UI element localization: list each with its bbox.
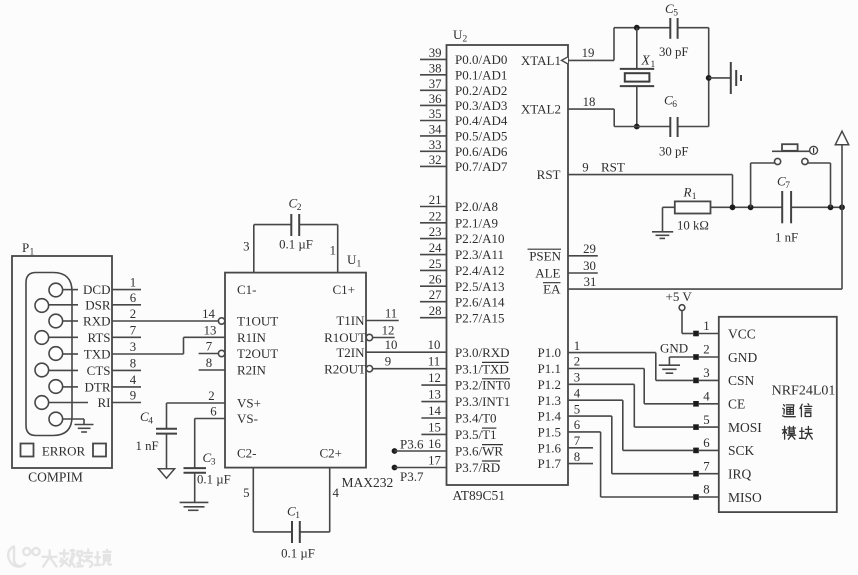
- svg-text:U: U: [347, 252, 357, 267]
- svg-text:P0.5/AD5: P0.5/AD5: [455, 129, 507, 144]
- svg-text:GND: GND: [728, 350, 757, 365]
- svg-text:P1.1: P1.1: [538, 361, 561, 376]
- svg-text:38: 38: [429, 61, 442, 75]
- svg-text:MAX232: MAX232: [342, 475, 394, 490]
- svg-text:7: 7: [785, 181, 790, 191]
- svg-text:P3.6/WR: P3.6/WR: [455, 444, 503, 459]
- svg-text:R2OUT: R2OUT: [324, 361, 366, 376]
- svg-text:P2.3/A11: P2.3/A11: [455, 247, 504, 262]
- svg-text:4: 4: [130, 373, 137, 387]
- svg-text:C2+: C2+: [320, 446, 343, 461]
- svg-text:2: 2: [297, 203, 302, 213]
- svg-text:4: 4: [703, 390, 710, 404]
- svg-text:4: 4: [148, 417, 153, 427]
- svg-text:P0.4/AD4: P0.4/AD4: [455, 113, 508, 128]
- svg-text:MOSI: MOSI: [728, 420, 762, 435]
- svg-text:29: 29: [583, 242, 596, 256]
- svg-text:8: 8: [703, 483, 709, 497]
- svg-text:34: 34: [429, 122, 442, 136]
- svg-text:1: 1: [574, 339, 580, 353]
- svg-text:6: 6: [210, 405, 217, 419]
- svg-text:VCC: VCC: [728, 326, 756, 341]
- svg-text:23: 23: [429, 225, 442, 239]
- svg-text:4: 4: [333, 486, 340, 500]
- svg-text:28: 28: [429, 304, 442, 318]
- svg-text:22: 22: [429, 209, 442, 223]
- svg-text:1: 1: [295, 511, 300, 521]
- svg-text:P2.5/A13: P2.5/A13: [455, 279, 504, 294]
- svg-text:1: 1: [703, 319, 709, 333]
- svg-text:4: 4: [574, 386, 581, 400]
- svg-text:1 nF: 1 nF: [136, 439, 159, 453]
- svg-text:24: 24: [429, 241, 442, 255]
- svg-text:P3.2/INT0: P3.2/INT0: [455, 378, 510, 393]
- svg-text:VS-: VS-: [237, 411, 258, 426]
- svg-text:30 pF: 30 pF: [659, 45, 689, 59]
- svg-text:7: 7: [206, 340, 213, 354]
- svg-text:CSN: CSN: [728, 373, 755, 388]
- svg-text:RXD: RXD: [83, 314, 110, 329]
- svg-text:CE: CE: [728, 397, 745, 412]
- svg-text:3: 3: [703, 366, 709, 380]
- svg-text:VS+: VS+: [237, 396, 261, 411]
- svg-text:36: 36: [429, 92, 442, 106]
- svg-text:30 pF: 30 pF: [659, 145, 689, 159]
- svg-text:P0.7/AD7: P0.7/AD7: [455, 159, 508, 174]
- svg-text:P3.4/T0: P3.4/T0: [455, 411, 497, 426]
- svg-text:3: 3: [130, 340, 136, 354]
- svg-text:5: 5: [673, 9, 678, 19]
- svg-text:+5 V: +5 V: [666, 289, 693, 304]
- svg-text:P1.0: P1.0: [538, 345, 561, 360]
- svg-text:P0.1/AD1: P0.1/AD1: [455, 67, 507, 82]
- svg-text:P0.2/AD2: P0.2/AD2: [455, 83, 507, 98]
- svg-text:32: 32: [429, 153, 442, 167]
- svg-text:1: 1: [692, 192, 697, 202]
- svg-text:P0.6/AD6: P0.6/AD6: [455, 144, 508, 159]
- svg-text:RST: RST: [601, 160, 625, 175]
- svg-text:C1+: C1+: [333, 282, 356, 297]
- svg-text:P2.0/A8: P2.0/A8: [455, 199, 498, 214]
- svg-text:5: 5: [703, 413, 709, 427]
- svg-text:1: 1: [130, 276, 136, 290]
- svg-text:COMPIM: COMPIM: [28, 470, 83, 485]
- svg-text:T1IN: T1IN: [336, 313, 365, 328]
- svg-text:NRF24L01: NRF24L01: [772, 384, 836, 399]
- svg-text:1: 1: [330, 244, 336, 258]
- svg-text:10 kΩ: 10 kΩ: [677, 219, 709, 233]
- svg-text:P3.3/INT1: P3.3/INT1: [455, 394, 510, 409]
- svg-text:8: 8: [130, 356, 136, 370]
- svg-text:6: 6: [672, 100, 677, 110]
- svg-text:RST: RST: [537, 167, 561, 182]
- svg-text:AT89C51: AT89C51: [453, 488, 506, 503]
- svg-text:RI: RI: [98, 395, 111, 410]
- svg-text:12: 12: [382, 324, 395, 338]
- svg-text:R2IN: R2IN: [237, 363, 267, 378]
- svg-text:P1.6: P1.6: [538, 440, 562, 455]
- svg-text:13: 13: [428, 388, 441, 402]
- svg-text:6: 6: [703, 436, 710, 450]
- svg-text:SCK: SCK: [728, 443, 755, 458]
- svg-text:R1IN: R1IN: [237, 330, 267, 345]
- svg-text:1: 1: [651, 60, 656, 70]
- svg-text:IRQ: IRQ: [728, 467, 752, 482]
- svg-text:10: 10: [385, 338, 398, 352]
- svg-text:9: 9: [385, 355, 391, 369]
- svg-text:P2.7/A15: P2.7/A15: [455, 310, 504, 325]
- svg-text:39: 39: [429, 46, 442, 60]
- svg-text:P0.0/AD0: P0.0/AD0: [455, 52, 507, 67]
- svg-text:PSEN: PSEN: [529, 248, 561, 263]
- svg-text:P3.5/T1: P3.5/T1: [455, 427, 497, 442]
- svg-text:DSR: DSR: [85, 297, 111, 312]
- svg-text:MISO: MISO: [728, 490, 762, 505]
- svg-text:18: 18: [583, 95, 596, 109]
- svg-text:C1-: C1-: [237, 282, 257, 297]
- svg-text:P: P: [22, 240, 29, 255]
- svg-text:35: 35: [429, 107, 442, 121]
- svg-text:14: 14: [428, 404, 441, 418]
- svg-text:3: 3: [243, 240, 249, 254]
- svg-text:25: 25: [429, 257, 442, 271]
- svg-text:27: 27: [429, 288, 442, 302]
- svg-text:GND: GND: [660, 341, 688, 356]
- svg-text:0.1 µF: 0.1 µF: [281, 547, 315, 561]
- svg-text:31: 31: [584, 275, 597, 289]
- svg-text:3: 3: [574, 371, 580, 385]
- svg-text:RTS: RTS: [87, 330, 110, 345]
- svg-text:XTAL1: XTAL1: [521, 53, 561, 68]
- svg-text:10: 10: [428, 338, 441, 352]
- svg-text:XTAL2: XTAL2: [521, 102, 561, 117]
- svg-text:11: 11: [385, 307, 397, 321]
- svg-text:7: 7: [574, 434, 581, 448]
- svg-text:EA: EA: [543, 282, 561, 297]
- svg-text:33: 33: [429, 138, 442, 152]
- svg-text:30: 30: [583, 259, 596, 273]
- svg-text:0.1 µF: 0.1 µF: [197, 473, 231, 487]
- svg-text:9: 9: [130, 389, 136, 403]
- svg-text:21: 21: [429, 193, 442, 207]
- svg-text:DTR: DTR: [85, 380, 111, 395]
- svg-text:17: 17: [428, 453, 441, 467]
- svg-text:1: 1: [30, 248, 35, 258]
- svg-text:11: 11: [428, 355, 440, 369]
- svg-text:DCD: DCD: [83, 282, 110, 297]
- svg-text:T2IN: T2IN: [336, 345, 365, 360]
- svg-text:P3.0/RXD: P3.0/RXD: [455, 345, 510, 360]
- svg-text:6: 6: [130, 291, 137, 305]
- svg-text:2: 2: [703, 343, 709, 357]
- svg-text:2: 2: [574, 355, 580, 369]
- svg-text:P2.2/A10: P2.2/A10: [455, 231, 504, 246]
- svg-text:13: 13: [204, 324, 217, 338]
- svg-text:ALE: ALE: [535, 266, 560, 281]
- svg-text:P1.7: P1.7: [538, 456, 562, 471]
- svg-text:8: 8: [574, 450, 580, 464]
- svg-text:P2.6/A14: P2.6/A14: [455, 294, 505, 309]
- svg-text:P3.7: P3.7: [400, 469, 424, 484]
- svg-text:X: X: [641, 53, 651, 68]
- svg-text:CTS: CTS: [87, 363, 111, 378]
- svg-text:5: 5: [243, 486, 249, 500]
- svg-text:R: R: [683, 185, 692, 200]
- svg-text:TXD: TXD: [84, 347, 111, 362]
- svg-text:8: 8: [206, 356, 212, 370]
- svg-text:1 nF: 1 nF: [775, 231, 798, 245]
- svg-text:2: 2: [208, 389, 214, 403]
- svg-text:14: 14: [202, 307, 215, 321]
- svg-text:37: 37: [429, 77, 442, 91]
- svg-text:2: 2: [130, 307, 136, 321]
- svg-text:2: 2: [463, 35, 468, 45]
- svg-text:P1.4: P1.4: [538, 409, 562, 424]
- svg-text:7: 7: [130, 323, 137, 337]
- svg-text:P0.3/AD3: P0.3/AD3: [455, 98, 507, 113]
- svg-text:19: 19: [582, 46, 595, 60]
- svg-text:R1OUT: R1OUT: [324, 330, 366, 345]
- svg-text:5: 5: [574, 402, 580, 416]
- svg-text:P1.2: P1.2: [538, 377, 561, 392]
- svg-text:15: 15: [428, 420, 441, 434]
- svg-text:P2.4/A12: P2.4/A12: [455, 263, 504, 278]
- svg-text:P3.7/RD: P3.7/RD: [455, 460, 500, 475]
- svg-text:C2-: C2-: [237, 446, 257, 461]
- svg-text:T1OUT: T1OUT: [237, 314, 278, 329]
- svg-text:6: 6: [574, 418, 581, 432]
- svg-text:26: 26: [429, 273, 442, 287]
- svg-text:P2.1/A9: P2.1/A9: [455, 215, 498, 230]
- svg-text:9: 9: [582, 160, 588, 174]
- svg-text:ERROR: ERROR: [42, 443, 86, 458]
- svg-text:12: 12: [428, 371, 441, 385]
- svg-text:7: 7: [703, 459, 710, 473]
- svg-text:0.1 µF: 0.1 µF: [279, 238, 313, 252]
- svg-text:U: U: [453, 27, 463, 42]
- svg-text:1: 1: [357, 260, 362, 270]
- svg-text:P1.5: P1.5: [538, 425, 561, 440]
- svg-text:P1.3: P1.3: [538, 393, 561, 408]
- svg-text:P3.6: P3.6: [400, 437, 424, 452]
- svg-text:P3.1/TXD: P3.1/TXD: [455, 361, 509, 376]
- svg-text:3: 3: [211, 458, 216, 468]
- svg-text:16: 16: [428, 437, 441, 451]
- svg-text:T2OUT: T2OUT: [237, 346, 278, 361]
